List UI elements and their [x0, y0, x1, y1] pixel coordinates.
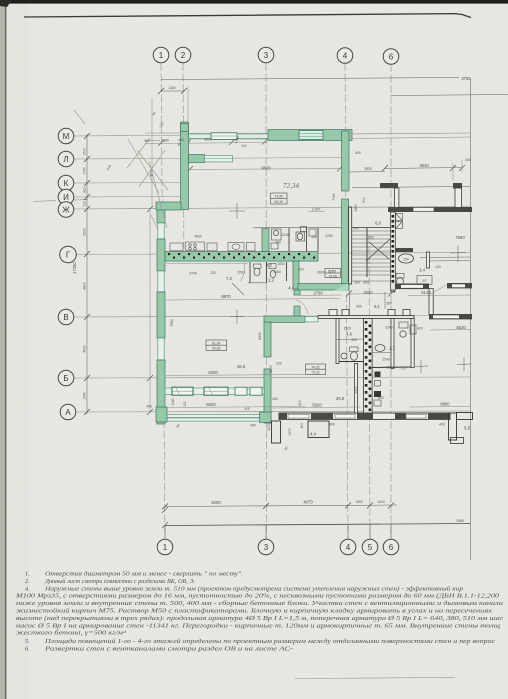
bath top cluster walls: [253, 226, 341, 229]
svg-text:Площади помещений 1-го - 4-го: Площади помещений 1-го - 4-го этажей опр…: [44, 638, 495, 645]
axis line 2: [183, 63, 184, 260]
svg-text:720: 720: [400, 367, 406, 371]
dim ticks left column: [84, 133, 90, 415]
svg-text:400: 400: [178, 138, 184, 142]
svg-text:190: 190: [403, 258, 409, 262]
svg-text:1540: 1540: [382, 358, 390, 362]
svg-text:4530: 4530: [83, 345, 87, 353]
axis circle K: [58, 175, 74, 191]
svg-text:Ж: Ж: [62, 206, 70, 215]
cross mark right b: [414, 360, 428, 374]
svg-text:1,7: 1,7: [389, 346, 395, 351]
svg-text:240: 240: [353, 227, 359, 231]
svg-text:3,4: 3,4: [419, 268, 425, 273]
wc left toilet: [350, 347, 359, 352]
bottom leader stems: [165, 525, 391, 540]
svg-text:74,52: 74,52: [311, 365, 320, 369]
svg-text:48,5: 48,5: [237, 364, 246, 369]
bottom band window a: [288, 414, 309, 418]
cross mark right c: [457, 358, 471, 372]
lower fixtures: [269, 264, 276, 269]
top-right line y137: [352, 137, 471, 139]
svg-text:3: 3: [264, 51, 269, 60]
mid-right double line G: [420, 256, 471, 259]
wall teal hall horizontal: [298, 284, 349, 291]
bottom band window b: [335, 414, 355, 418]
svg-text:Л: Л: [63, 155, 68, 164]
svg-text:8870: 8870: [221, 294, 231, 299]
window W7: [235, 387, 247, 395]
area box 2: [206, 340, 227, 350]
svg-text:3965: 3965: [456, 519, 464, 523]
bottom band solid seg b: [311, 413, 333, 419]
upper-right vert wall b: [455, 188, 462, 208]
axis line B: [74, 377, 471, 378]
svg-text:6.: 6.: [25, 646, 30, 653]
axis line K: [74, 182, 187, 185]
wall teal left seg c1: [157, 292, 165, 338]
svg-text:510: 510: [362, 197, 366, 203]
svg-text:400: 400: [300, 423, 304, 429]
bottom band right turn wall: [449, 413, 457, 440]
svg-text:400: 400: [146, 405, 152, 409]
loggia corner block right: [260, 412, 272, 422]
svg-text:350: 350: [386, 302, 392, 306]
svg-text:1390: 1390: [355, 500, 363, 504]
upper-right bottom wall seg b: [434, 207, 472, 212]
window in room wall: [305, 317, 318, 322]
core right wall: [411, 319, 414, 368]
stair bottom landing line: [352, 280, 391, 282]
core top wall: [318, 316, 414, 319]
faint scan shading left: [6, 0, 28, 699]
bottom band solid seg d: [395, 413, 406, 419]
bottom faint line: [295, 678, 455, 679]
svg-text:120: 120: [311, 235, 317, 239]
svg-text:120: 120: [386, 366, 392, 370]
svg-text:1380: 1380: [161, 139, 169, 143]
right cut line: [470, 79, 472, 560]
bottom main line: [165, 524, 470, 526]
shaft column: [364, 319, 373, 415]
area box 4: [325, 269, 341, 278]
core pilaster a: [342, 310, 349, 316]
stair treads: [352, 231, 391, 275]
wall teal interior vertical seg b: [264, 369, 271, 423]
svg-text:высоте (над перекрытиями в тре: высоте (над перекрытиями в трех рядах): …: [16, 615, 504, 622]
stair divider: [366, 228, 368, 277]
wall teal stub below hall a: [294, 290, 300, 295]
top wall extension leaders: [187, 86, 189, 130]
svg-text:6140: 6140: [421, 290, 431, 295]
svg-text:4530: 4530: [204, 138, 212, 142]
upper-right wall block b: [453, 183, 462, 189]
svg-text:7190: 7190: [332, 193, 336, 201]
entry corridor side walls: [349, 290, 351, 316]
svg-text:2520: 2520: [363, 290, 373, 295]
left vertical dim line: [86, 134, 88, 414]
pillar a below band: [272, 421, 281, 443]
kitchen counter row: [170, 242, 255, 251]
axis line Zh: [74, 207, 471, 210]
svg-text:В: В: [63, 313, 68, 322]
right room walls: [372, 352, 394, 354]
svg-text:1520: 1520: [343, 327, 351, 331]
axis circle 3 top: [258, 47, 274, 63]
window band lower room: [165, 388, 264, 395]
svg-text:4,4: 4,4: [310, 432, 316, 437]
svg-text:8440: 8440: [258, 332, 262, 340]
top-right line y95: [391, 95, 508, 96]
svg-text:3: 3: [264, 543, 269, 552]
wall teal Zh stub horizontal: [156, 202, 181, 210]
upper-right room top wall line: [352, 187, 470, 188]
dim 2520 top right: [348, 171, 385, 174]
area box 1: [271, 193, 288, 204]
svg-text:3740: 3740: [189, 272, 197, 276]
wall bar V right: [447, 283, 472, 288]
window W2 in top thick wall: [299, 131, 323, 140]
svg-text:Б: Б: [63, 374, 68, 383]
axis1 lower ticks: [162, 507, 168, 513]
corridor left wall of shaft: [355, 364, 358, 415]
core pilaster c: [403, 310, 410, 316]
dim 6140 with leader: [429, 285, 446, 295]
vent wall right of stairs: [391, 212, 396, 290]
svg-text:72,34: 72,34: [283, 182, 300, 190]
svg-text:4,4: 4,4: [288, 286, 294, 291]
svg-text:6: 6: [389, 53, 394, 62]
loggia corner block left: [156, 407, 167, 422]
dim 5530: [430, 329, 471, 332]
pencil scribbles left: [74, 110, 168, 230]
core left wall: [336, 319, 339, 364]
axis circle A: [60, 404, 76, 420]
wall bar B mid: [429, 314, 472, 319]
svg-text:5: 5: [368, 543, 373, 552]
svg-text:2790: 2790: [313, 291, 323, 296]
svg-text:200: 200: [276, 362, 282, 366]
window W8: [250, 387, 262, 395]
svg-text:69,30: 69,30: [274, 200, 283, 204]
axis line L: [74, 158, 350, 160]
svg-text:1180: 1180: [171, 398, 175, 405]
svg-text:420: 420: [417, 327, 423, 331]
fixtures below V bar: [399, 322, 408, 328]
axis circle M: [58, 128, 74, 144]
left second dim column: [149, 209, 151, 413]
axis line 5: [369, 235, 370, 538]
svg-text:2,2: 2,2: [268, 278, 274, 283]
loggia outer band teal: [165, 415, 260, 422]
svg-text:400: 400: [329, 423, 335, 427]
top dim row ticks: [158, 139, 268, 147]
bottom band solid seg c: [357, 413, 373, 419]
dim 2790: [300, 294, 341, 297]
bath top sink box: [272, 229, 282, 240]
svg-text:200: 200: [298, 268, 304, 272]
axis circle 6 top: [383, 49, 399, 65]
bottom band far right seg: [457, 413, 473, 420]
axis line 6: [390, 64, 392, 538]
lower toilet: [254, 264, 262, 268]
svg-text:2600: 2600: [317, 271, 325, 275]
wall teal left seg a: [157, 210, 165, 223]
door swing a: [232, 283, 244, 295]
svg-text:6220: 6220: [208, 370, 218, 375]
svg-text:2260: 2260: [237, 271, 245, 275]
svg-text:7,2: 7,2: [226, 276, 232, 281]
axis circle 2 top: [175, 47, 191, 63]
svg-text:7560: 7560: [455, 235, 465, 240]
G_TEAL: [156, 122, 352, 424]
axis circle 4 top: [337, 48, 353, 64]
stair top landing wall: [352, 227, 391, 229]
dim line 3510: [385, 168, 462, 169]
top-right line 3750: [161, 78, 459, 80]
top dim row line: [145, 143, 268, 144]
wall teal kitchen divider: [262, 228, 269, 252]
axis circle 1 top: [153, 47, 169, 63]
svg-text:И: И: [63, 193, 69, 202]
svg-text:5530: 5530: [456, 325, 466, 330]
svg-text:М100 Мрз35, с отверстиями разм: М100 Мрз35, с отверстиями размером до 16…: [15, 593, 500, 600]
svg-text:М: М: [63, 132, 70, 141]
kitchen window stub teal: [189, 155, 205, 163]
svg-text:5,8: 5,8: [464, 426, 470, 431]
bottom dim line: [165, 505, 397, 507]
left scan margin strip: [0, 0, 5, 699]
svg-text:61,99: 61,99: [212, 341, 221, 345]
svg-text:1540: 1540: [83, 392, 87, 400]
wall teal interior vertical seg a: [264, 322, 271, 357]
svg-text:130: 130: [183, 401, 187, 407]
axis circle B: [58, 370, 74, 386]
svg-text:1410: 1410: [377, 500, 385, 504]
svg-text:Г: Г: [66, 251, 71, 260]
svg-text:400: 400: [272, 397, 278, 401]
bath oval 190: [399, 254, 414, 263]
wall teal upper-left vertical: [181, 122, 189, 210]
svg-text:4: 4: [346, 543, 351, 552]
svg-text:640: 640: [378, 396, 384, 400]
svg-text:2.: 2.: [25, 578, 30, 585]
upper-right bottom window: [413, 208, 434, 212]
svg-text:К: К: [64, 179, 69, 188]
svg-text:жесткого бетона, γ=500 кг/м⁴: жесткого бетона, γ=500 кг/м⁴: [16, 630, 127, 637]
dim line 2520 stair bottom: [349, 293, 391, 296]
svg-text:400: 400: [250, 424, 256, 428]
top dim line 1300: [161, 90, 184, 92]
svg-text:Наружные стены выше уровня зем: Наружные стены выше уровня земли т. 510 …: [44, 585, 463, 592]
upper-right wall block a: [380, 183, 398, 188]
core pilaster b: [388, 310, 395, 316]
svg-text:400: 400: [355, 151, 361, 155]
window W6: [204, 387, 228, 395]
svg-text:120: 120: [351, 338, 357, 342]
upper-right bottom wall seg a: [388, 207, 413, 212]
top scan black bar: [0, 0, 508, 4]
axis line M: [74, 133, 471, 136]
top-left corner blob: [0, 0, 12, 7]
right room squares: [375, 372, 381, 378]
wall teal corner head: [181, 124, 189, 132]
axis circle L: [58, 151, 74, 167]
svg-text:жизнестойкий кирпич М75. Раств: жизнестойкий кирпич М75. Раствор М50 с п…: [16, 608, 492, 615]
axis circle 5 bottom: [362, 539, 378, 555]
area box 3: [306, 364, 326, 374]
core small rooms bottom walls: [336, 338, 364, 341]
svg-text:5.: 5.: [25, 638, 30, 645]
axis circle 3 bottom: [258, 539, 274, 555]
svg-text:73,32: 73,32: [311, 371, 320, 375]
axis circle G: [60, 246, 77, 263]
svg-text:400: 400: [298, 400, 302, 406]
svg-text:7980: 7980: [170, 319, 174, 327]
pillar bottom bar: [451, 438, 464, 444]
window W3 left wall: [158, 223, 164, 239]
svg-text:9800: 9800: [261, 166, 271, 171]
dim 6220: [166, 375, 305, 376]
svg-text:920: 920: [83, 187, 87, 193]
svg-text:Данный лист смотри совместно с: Данный лист смотри совместно с разделами…: [44, 578, 195, 585]
bottom band solid seg a: [279, 413, 287, 419]
svg-text:3000: 3000: [267, 423, 271, 431]
bottom band solid seg e: [428, 413, 450, 419]
svg-text:3510: 3510: [419, 163, 429, 168]
svg-text:1.: 1.: [25, 571, 30, 578]
axis circle 4 bottom: [340, 539, 356, 555]
axis circle Zh: [58, 202, 74, 218]
wall teal left seg c2: [157, 360, 165, 424]
svg-text:2450: 2450: [354, 204, 358, 212]
svg-text:400: 400: [439, 423, 445, 427]
svg-text:3750: 3750: [461, 76, 471, 81]
bath top wc oval: [296, 232, 305, 241]
svg-text:6,0: 6,0: [375, 221, 381, 226]
svg-text:67: 67: [423, 279, 427, 283]
svg-text:6020: 6020: [206, 402, 216, 407]
svg-text:2520: 2520: [364, 167, 372, 171]
svg-text:290: 290: [368, 236, 374, 240]
svg-text:14,36: 14,36: [328, 274, 337, 278]
wall teal right vertical upper: [342, 131, 350, 191]
bottom band window c: [406, 414, 426, 418]
svg-text:6,9: 6,9: [242, 144, 247, 148]
svg-text:2260: 2260: [325, 234, 333, 238]
stair diagonal arrow: [366, 239, 390, 261]
wall teal top window band left: [189, 134, 269, 139]
vert connector wall: [429, 289, 433, 315]
svg-text:300: 300: [356, 305, 362, 309]
window left wall lower: [158, 338, 164, 360]
svg-text:1300: 1300: [168, 86, 176, 90]
G_AXES: [74, 63, 471, 538]
svg-text:6: 6: [389, 543, 394, 552]
axis circle 1 bottom: [157, 539, 173, 555]
entrance vent squares: [396, 214, 403, 221]
svg-text:8860: 8860: [440, 402, 450, 407]
cross mark room2: [230, 310, 244, 324]
svg-text:3800: 3800: [83, 282, 87, 290]
pillar b below band: [308, 421, 329, 438]
svg-text:2,400: 2,400: [312, 208, 321, 212]
wc left room walls: [339, 361, 364, 363]
svg-text:1000: 1000: [273, 270, 281, 274]
teal elbow swipe at stair: [333, 283, 348, 291]
wall teal left seg b: [157, 239, 165, 271]
svg-text:А: А: [65, 408, 71, 417]
svg-text:120: 120: [210, 271, 216, 275]
window W1 top band: [211, 133, 237, 140]
faint small dashes upper-left: [33, 201, 56, 202]
svg-text:8,8: 8,8: [245, 407, 250, 411]
svg-text:6200: 6200: [211, 500, 221, 505]
wall teal right vertical mid: [342, 199, 349, 285]
svg-text:59,96: 59,96: [212, 347, 221, 351]
G_BLACK: [166, 183, 473, 444]
upper-right vert wall a: [395, 188, 399, 208]
wall teal room horizontal: [264, 316, 305, 322]
window W4 left wall: [158, 271, 164, 292]
axis circle V: [58, 309, 74, 325]
kitchen window light: [205, 156, 233, 162]
vent band wall (hatched): [165, 252, 318, 262]
svg-text:5000: 5000: [269, 365, 273, 373]
dim 8860: [410, 406, 471, 409]
G_CIRCLES: [58, 47, 399, 555]
svg-text:насос Ø 5 Вр I на армирование: насос Ø 5 Вр I на армирование стен -1134…: [16, 622, 500, 629]
axis line I: [74, 196, 187, 199]
svg-text:4530: 4530: [194, 235, 202, 239]
axis line 1: [161, 63, 165, 538]
svg-text:430: 430: [465, 158, 471, 162]
svg-text:300: 300: [354, 281, 360, 285]
lower bath cluster walls: [250, 262, 287, 283]
bath room walls mid-right: [395, 248, 413, 252]
dim 8870: [166, 299, 340, 301]
G_NOTES bottom text block: [15, 571, 504, 653]
box 67: [417, 276, 432, 285]
dim 6020: [166, 407, 305, 408]
svg-text:4,6: 4,6: [266, 263, 272, 268]
svg-text:2520: 2520: [83, 228, 87, 236]
door swing b: [296, 300, 308, 314]
svg-text:510: 510: [83, 201, 87, 207]
svg-text:1: 1: [163, 543, 168, 552]
svg-text:1730: 1730: [83, 167, 87, 175]
stair left wall: [349, 207, 352, 284]
svg-text:1370: 1370: [288, 428, 292, 436]
axis circle I: [58, 189, 74, 205]
axis line G: [76, 253, 471, 255]
svg-text:300: 300: [363, 281, 369, 285]
svg-text:1: 1: [159, 51, 164, 60]
svg-text:ниже уровня земли и внутренние: ниже уровня земли и внутренние стены т. …: [16, 600, 503, 607]
cross mark right a: [450, 245, 466, 262]
bath top small boxes: [301, 227, 307, 232]
cross mark room1: [229, 203, 245, 219]
dim line 9800 interior: [190, 169, 340, 170]
axis line A: [76, 411, 471, 412]
right room sink: [375, 345, 385, 352]
svg-text:120: 120: [435, 265, 441, 269]
svg-text:2700: 2700: [355, 386, 359, 394]
svg-text:1500: 1500: [83, 148, 87, 156]
left scan edge line: [5, 0, 6, 699]
svg-text:4070: 4070: [303, 500, 313, 505]
wall teal stub below hall b: [294, 306, 300, 316]
